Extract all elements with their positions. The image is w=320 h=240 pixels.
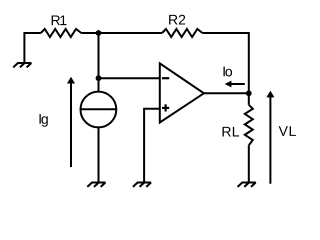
op-amp U1 triangle	[160, 63, 204, 122]
wire R2 to output node (feedback)	[203, 33, 249, 93]
wire output node to RL	[248, 93, 250, 105]
current source Ig (circle with horizontal bar)	[81, 92, 117, 128]
node C (output node)	[246, 90, 252, 96]
current arrow Ig (pointing up)	[67, 77, 75, 167]
current arrow Io (pointing left)	[225, 81, 245, 88]
node A (inverting input net, top)	[96, 30, 102, 36]
wire op-amp plus input to ground	[144, 109, 160, 183]
wire R1 to R2 through node A	[81, 32, 162, 34]
ground G2 (under current source)	[87, 183, 105, 187]
label R1	[52, 15, 67, 25]
label R2	[169, 15, 185, 25]
resistor R2	[162, 29, 203, 37]
voltage arrow VL (pointing up)	[266, 91, 274, 184]
wire op-amp output to output node	[204, 92, 249, 94]
label VL	[279, 126, 296, 136]
wire RL bottom to ground	[248, 145, 250, 182]
op-amp plus sign	[162, 104, 169, 111]
ground G1 (left input ground)	[13, 63, 31, 67]
label Io	[223, 67, 232, 77]
resistor R1	[41, 29, 82, 37]
label Ig	[39, 114, 47, 127]
ground G4 (under RL)	[238, 183, 256, 187]
wire current source bottom to ground	[98, 127, 100, 182]
node B (junction at current source / op-amp minus)	[96, 75, 102, 81]
wire top-left corner to R1	[24, 33, 40, 63]
ground G3 (under plus input)	[133, 183, 151, 187]
resistor RL (vertical)	[245, 105, 253, 146]
wire node B to op-amp inverting input	[99, 77, 160, 79]
wire node B to current source top	[98, 78, 100, 92]
label RL	[223, 127, 239, 137]
op-amp minus sign	[162, 77, 169, 79]
wire node A down to node B	[98, 33, 100, 78]
